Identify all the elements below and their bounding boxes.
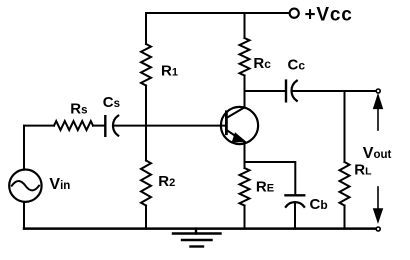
wire RL bottom lead: [344, 206, 346, 229]
wire R2 top lead: [145, 126, 147, 161]
wire base: [114, 125, 227, 127]
wire top rail: [146, 12, 288, 14]
wire bottom rail: [24, 227, 376, 230]
svg-text:Rc: Rc: [253, 55, 271, 72]
wire R1 bottom to base node: [145, 86, 147, 126]
ground: [173, 229, 221, 247]
wire R2 bottom lead: [145, 206, 147, 229]
resistor Rc: [240, 38, 250, 76]
resistor R1: [141, 44, 151, 86]
wire Cc to output terminal: [292, 90, 376, 92]
wire RL branch top: [344, 91, 346, 162]
wire Rc bottom to collector: [244, 76, 246, 108]
wire Vin corner to Rs: [24, 125, 54, 127]
Vcc terminal: [290, 9, 299, 18]
svg-text:Cb: Cb: [310, 196, 328, 213]
output terminal top: [376, 89, 380, 93]
wire emitter down: [244, 143, 246, 168]
output terminal bottom: [376, 227, 380, 231]
wire Vin top lead: [23, 126, 25, 170]
resistor RE: [240, 168, 250, 206]
resistor Rs: [54, 121, 93, 130]
svg-text:+Vcc: +Vcc: [305, 5, 353, 26]
resistor RL: [340, 162, 350, 206]
source Vin: [9, 170, 41, 202]
resistor R2: [141, 161, 151, 206]
wire Rs to Cs: [93, 125, 105, 127]
wire R1 branch top: [145, 13, 147, 44]
svg-text:Cc: Cc: [288, 57, 306, 74]
Vout arrow down: [374, 187, 383, 222]
wire collector row to Cc: [245, 90, 287, 92]
wire Rc branch top: [244, 13, 246, 38]
Vout arrow up: [374, 95, 383, 130]
wire RE bottom lead: [244, 206, 246, 229]
capacitor Cb: [286, 195, 305, 228]
capacitor Cs: [105, 116, 118, 136]
transistor Q1: [221, 107, 258, 144]
capacitor Cc: [286, 81, 297, 102]
wire Vin bottom lead: [23, 202, 25, 229]
wire emitter to Cb branch: [245, 162, 296, 195]
